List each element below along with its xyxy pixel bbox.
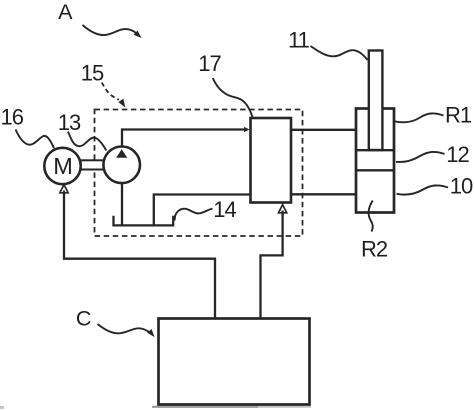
svg-text:15: 15	[81, 61, 104, 86]
svg-text:R1: R1	[445, 103, 472, 128]
svg-text:10: 10	[450, 174, 473, 199]
svg-text:C: C	[76, 306, 92, 330]
svg-text:11: 11	[288, 28, 310, 53]
svg-text:A: A	[58, 0, 73, 24]
svg-text:16: 16	[1, 105, 24, 130]
svg-text:M: M	[53, 153, 73, 179]
svg-text:17: 17	[198, 51, 221, 76]
svg-text:R2: R2	[361, 237, 388, 262]
svg-text:14: 14	[213, 197, 236, 222]
svg-text:12: 12	[446, 142, 469, 167]
svg-text:13: 13	[58, 110, 81, 135]
